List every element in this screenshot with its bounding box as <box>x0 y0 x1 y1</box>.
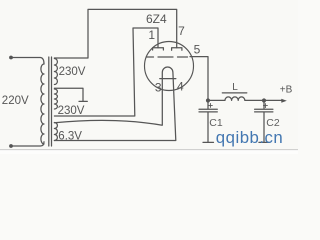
svg-text:6Z4: 6Z4 <box>146 12 167 26</box>
svg-text:+B: +B <box>280 85 293 96</box>
svg-text:qqibb.cn: qqibb.cn <box>216 128 283 147</box>
svg-text:220V: 220V <box>2 95 29 107</box>
svg-text:6.3V: 6.3V <box>58 130 82 142</box>
svg-text:230V: 230V <box>59 66 86 78</box>
svg-text:4: 4 <box>177 79 184 93</box>
svg-text:5: 5 <box>194 43 201 57</box>
svg-text:230V: 230V <box>58 105 85 117</box>
svg-text:1: 1 <box>148 28 155 42</box>
svg-text:7: 7 <box>178 24 185 38</box>
svg-text:3: 3 <box>155 80 162 94</box>
svg-text:L: L <box>232 82 238 93</box>
